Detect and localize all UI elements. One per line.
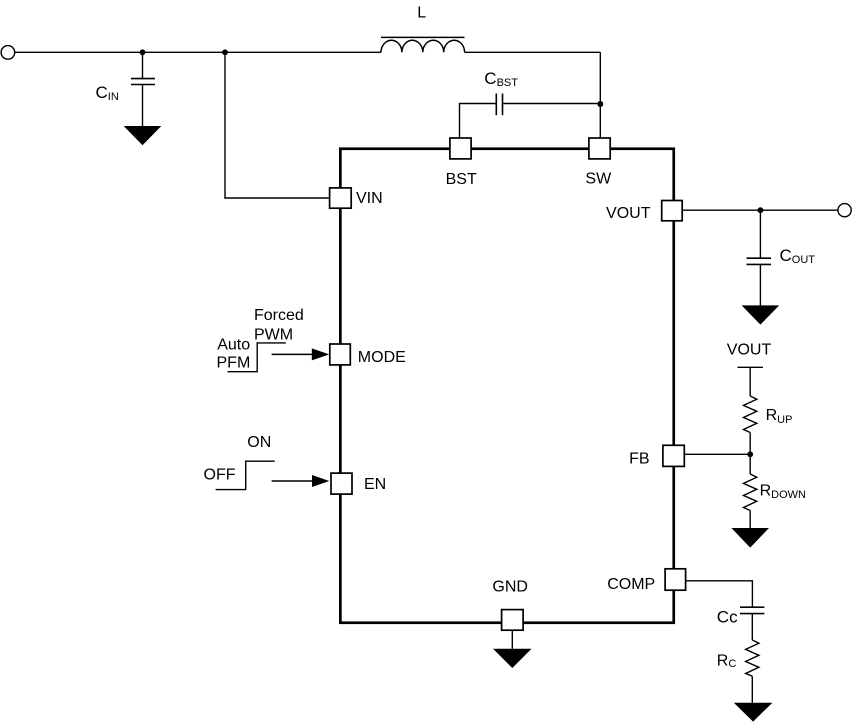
- wire FB node to RDOWN: [749, 454, 751, 474]
- VOUT rail bar: [738, 366, 764, 368]
- svg-text:VOUT: VOUT: [727, 342, 772, 359]
- wire VIN branch: [225, 52, 329, 198]
- pin SW: [585, 138, 612, 187]
- svg-text:MODE: MODE: [358, 349, 406, 366]
- pin BST: [446, 138, 477, 188]
- input terminal: [1, 46, 15, 60]
- MODE arrow: [272, 348, 330, 360]
- EN step waveform: [204, 434, 275, 490]
- svg-text:Auto: Auto: [217, 337, 250, 354]
- ground (CIN): [124, 126, 162, 145]
- svg-text:PFM: PFM: [217, 355, 251, 372]
- svg-text:ON: ON: [247, 434, 271, 451]
- wire BST to CBST: [460, 104, 496, 139]
- resistor RUP: [744, 396, 793, 433]
- EN arrow: [272, 475, 330, 487]
- svg-text:BST: BST: [446, 171, 477, 188]
- pin FB: [629, 445, 684, 467]
- pin GND: [492, 578, 528, 630]
- wire GND to ground: [511, 630, 513, 649]
- wire Cc to RC: [751, 614, 753, 640]
- node FB junction: [747, 451, 753, 457]
- node SW/CBST junction: [597, 101, 603, 107]
- pin MODE: [330, 344, 406, 366]
- wire COUT to ground: [759, 264, 761, 305]
- resistor RDOWN: [744, 474, 807, 511]
- wire input to inductor: [15, 51, 381, 53]
- ground (COUT): [742, 305, 780, 324]
- node VIN branch junction: [222, 49, 228, 55]
- svg-text:EN: EN: [364, 476, 386, 493]
- pin EN: [331, 473, 386, 494]
- ground (RC): [734, 703, 773, 722]
- pin VOUT: [606, 201, 682, 222]
- wire inductor to SW corner: [465, 51, 601, 53]
- node CIN junction: [140, 49, 146, 55]
- wire CBST to SW node: [503, 103, 600, 105]
- wire CIN drop: [142, 52, 144, 78]
- pin COMP: [607, 569, 685, 593]
- ground (RDOWN): [731, 528, 769, 548]
- IC U1 body: [340, 149, 673, 623]
- svg-text:FB: FB: [629, 450, 649, 467]
- wire CIN to ground: [142, 85, 144, 127]
- svg-text:OFF: OFF: [204, 467, 236, 484]
- resistor RC: [717, 640, 759, 676]
- wire VOUT rail to RUP: [749, 367, 751, 396]
- svg-text:Cc: Cc: [717, 607, 738, 626]
- capacitor COUT: [747, 246, 816, 266]
- ground (GND pin): [493, 649, 532, 668]
- wire VOUT to output terminal: [682, 209, 838, 211]
- capacitor CBST: [484, 69, 518, 115]
- MODE step waveform: [217, 307, 304, 372]
- wire RC to ground: [751, 676, 753, 703]
- node COUT junction: [758, 207, 764, 213]
- wire RDOWN to ground: [749, 511, 751, 529]
- svg-text:PWM: PWM: [254, 326, 293, 343]
- svg-text:VIN: VIN: [356, 190, 383, 207]
- inductor L: [381, 5, 465, 53]
- capacitor Cc: [717, 607, 765, 626]
- wire RUP to FB node: [749, 433, 751, 455]
- svg-text:L: L: [417, 5, 426, 22]
- wire COUT drop: [759, 210, 761, 258]
- svg-text:SW: SW: [585, 170, 612, 187]
- svg-text:VOUT: VOUT: [606, 205, 651, 222]
- wire COMP to Cc: [685, 581, 752, 607]
- svg-text:Forced: Forced: [254, 307, 304, 324]
- capacitor CIN: [96, 79, 156, 104]
- output terminal: [838, 204, 851, 217]
- wire FB to divider: [684, 453, 750, 455]
- svg-text:GND: GND: [492, 578, 528, 595]
- wire SW drop: [599, 52, 601, 138]
- pin VIN: [330, 188, 383, 208]
- svg-text:COMP: COMP: [607, 576, 655, 593]
